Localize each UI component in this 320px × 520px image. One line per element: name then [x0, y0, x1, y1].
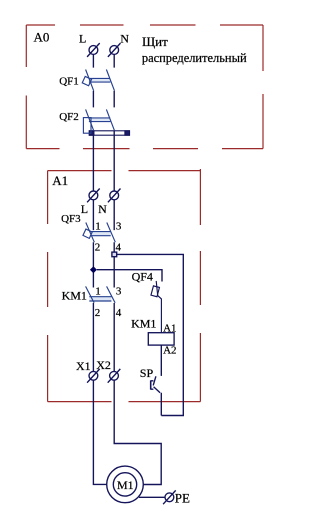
- svg-text:M1: M1: [117, 478, 134, 492]
- svg-text:A1: A1: [163, 322, 176, 334]
- svg-text:X2: X2: [96, 358, 111, 372]
- svg-text:PE: PE: [175, 491, 190, 506]
- svg-text:N: N: [98, 202, 107, 216]
- svg-text:KM1: KM1: [131, 317, 156, 331]
- svg-text:QF2: QF2: [59, 111, 79, 123]
- svg-text:4: 4: [116, 241, 122, 253]
- svg-text:SP: SP: [140, 366, 154, 380]
- svg-text:Щит: Щит: [142, 34, 168, 49]
- svg-text:3: 3: [116, 221, 122, 233]
- svg-text:A0: A0: [34, 30, 50, 45]
- svg-text:1: 1: [95, 286, 101, 298]
- svg-text:L: L: [79, 31, 86, 45]
- svg-text:3: 3: [116, 286, 122, 298]
- svg-text:QF4: QF4: [132, 270, 153, 284]
- svg-text:1: 1: [95, 221, 101, 233]
- svg-text:KM1: KM1: [62, 289, 87, 303]
- svg-text:N: N: [120, 31, 129, 45]
- svg-text:4: 4: [116, 307, 122, 319]
- svg-text:X1: X1: [76, 359, 91, 373]
- svg-text:2: 2: [95, 241, 101, 253]
- svg-text:QF1: QF1: [59, 76, 79, 88]
- svg-text:A2: A2: [163, 344, 176, 356]
- svg-text:QF3: QF3: [61, 213, 81, 225]
- svg-text:A1: A1: [52, 173, 68, 188]
- svg-text:L: L: [81, 202, 88, 216]
- svg-text:2: 2: [95, 307, 101, 319]
- svg-text:распределительный: распределительный: [142, 51, 247, 65]
